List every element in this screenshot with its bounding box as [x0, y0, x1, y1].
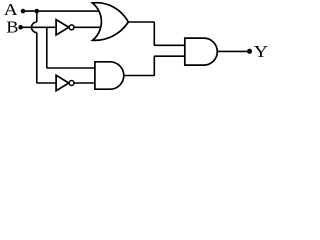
inverter U3 (bottom NOT gate) — [56, 75, 69, 90]
wire OR gate output elbow to AND gate U4 top input — [128, 22, 185, 45]
wire inverter U3 output to AND gate U5 bottom input — [74, 82, 95, 84]
OR gate U2 — [92, 3, 128, 41]
terminal dot Y — [247, 49, 252, 54]
wire hop over B wire — [32, 22, 37, 33]
inverter U1 (top NOT gate) — [56, 20, 69, 35]
wire AND gate U4 output to Y — [217, 50, 249, 52]
AND gate U5 (bottom) — [95, 62, 124, 89]
wire B to inverter U1 input — [21, 26, 57, 28]
svg-text:B: B — [6, 17, 18, 36]
inverter U3 bubble — [69, 81, 74, 86]
wire inverter U1 output to OR gate bottom input — [74, 26, 101, 28]
junction dot on A wire — [35, 9, 40, 14]
wire A to OR gate top input — [23, 10, 100, 12]
svg-text:A: A — [4, 0, 19, 19]
AND gate U4 (output) — [185, 38, 218, 65]
wire AND gate U5 output elbow to AND gate U4 bottom input — [124, 56, 185, 75]
wire B branch down to AND gate U5 top input — [47, 27, 95, 68]
terminal dot A — [21, 9, 26, 14]
terminal dot B — [18, 25, 23, 30]
svg-text:Y: Y — [254, 42, 268, 61]
wire A branch down upper segment — [36, 11, 38, 22]
inverter U1 bubble — [69, 25, 74, 30]
wire A branch down to inverter U3 input — [37, 33, 56, 83]
